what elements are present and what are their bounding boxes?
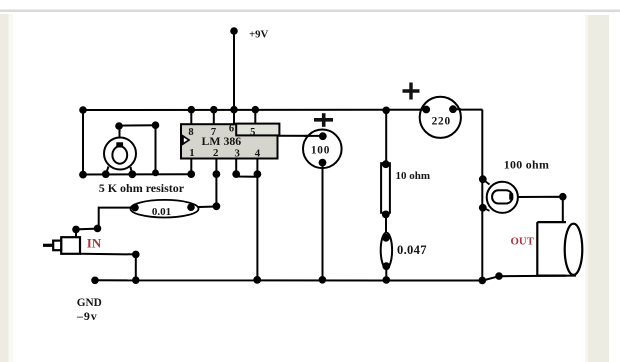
svg-text:5: 5 xyxy=(250,127,255,138)
wire ground rail xyxy=(91,276,482,284)
wire jack to ground rail xyxy=(80,251,140,281)
wire IC pin5 side to cap 100 xyxy=(278,135,323,137)
pin 2 stub xyxy=(215,159,217,175)
node output branch top xyxy=(479,175,487,183)
svg-text:1: 1 xyxy=(189,147,194,159)
pin 3 stub xyxy=(235,159,237,175)
svg-text:6: 6 xyxy=(229,123,234,134)
wire pot bottom rail xyxy=(83,173,191,175)
capacitor 0.047 xyxy=(381,233,427,271)
svg-text:LM 386: LM 386 xyxy=(202,134,242,148)
capacitor C 220uF xyxy=(403,83,462,138)
svg-text:GND: GND xyxy=(77,297,102,309)
svg-text:10 ohm: 10 ohm xyxy=(396,170,431,182)
input jack IN xyxy=(43,237,80,254)
capacitor C 100uF xyxy=(303,113,342,168)
wire branch down xyxy=(385,110,387,164)
svg-text:220: 220 xyxy=(432,116,451,128)
wire pot wiper xyxy=(115,121,159,176)
wire top rail xyxy=(83,109,483,111)
node rail junction at output branch xyxy=(479,277,487,285)
+9V supply node xyxy=(230,27,268,135)
svg-text:100 ohm: 100 ohm xyxy=(504,158,549,172)
speaker xyxy=(537,222,582,276)
svg-text:5 K ohm resistor: 5 K ohm resistor xyxy=(99,181,185,195)
node rail to 10ohm branch xyxy=(382,107,390,115)
svg-text:100: 100 xyxy=(311,145,330,157)
wire rail jog to speaker xyxy=(482,272,576,280)
wire pin3 to pin4 xyxy=(236,174,257,176)
wire pin4 to ground rail xyxy=(256,174,258,280)
node rail left end xyxy=(79,106,87,114)
resistor 10 ohm xyxy=(381,160,430,218)
svg-text:+9V: +9V xyxy=(249,29,269,41)
capacitor 0.01 xyxy=(131,200,221,218)
wire left vertical xyxy=(82,110,84,175)
op-amp U1 LM 386 xyxy=(181,106,279,160)
svg-text:OUT: OUT xyxy=(511,236,535,248)
pin 4 stub xyxy=(256,159,258,175)
svg-text:0.047: 0.047 xyxy=(397,243,427,257)
svg-text:IN: IN xyxy=(87,236,102,251)
svg-text:2: 2 xyxy=(213,147,218,159)
svg-text:8: 8 xyxy=(188,127,193,138)
wire pin2 to cap 0.01 xyxy=(215,174,217,206)
wire cap 0.01 to jack xyxy=(72,208,135,238)
wire driver to speaker xyxy=(518,193,567,222)
wire 10ohm to 0.047 xyxy=(385,213,387,238)
pin 1 stub xyxy=(190,159,192,175)
output driver 100 ohm xyxy=(487,182,518,213)
svg-text:–9v: –9v xyxy=(76,309,98,323)
node output branch bottom xyxy=(479,204,487,212)
potentiometer 5K xyxy=(102,126,136,178)
wire right vertical to output xyxy=(481,110,483,281)
svg-text:0.01: 0.01 xyxy=(152,206,171,218)
wire 0.047 to ground rail xyxy=(385,266,387,280)
svg-text:4: 4 xyxy=(255,147,261,159)
svg-text:3: 3 xyxy=(234,147,240,159)
wire cap 100 to ground rail xyxy=(322,163,324,281)
